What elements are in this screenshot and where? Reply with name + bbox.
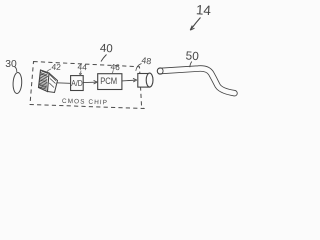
- wire mic to A/D: [57, 82, 71, 85]
- svg-text:50: 50: [185, 48, 200, 63]
- svg-text:48: 48: [141, 55, 152, 66]
- ear oval 30: [13, 72, 23, 93]
- tube 50 outline: [160, 68, 235, 93]
- svg-text:44: 44: [77, 62, 87, 73]
- A/D converter box: [71, 76, 84, 91]
- leader 30: [15, 67, 17, 73]
- svg-text:30: 30: [5, 59, 17, 70]
- svg-text:46: 46: [110, 62, 120, 73]
- svg-text:40: 40: [100, 43, 113, 56]
- leader 50: [190, 62, 192, 68]
- leader 46: [112, 70, 113, 73]
- svg-text:14: 14: [195, 2, 212, 18]
- PCM box: [98, 74, 122, 90]
- arrow 14 leader: [191, 18, 200, 30]
- leader 48: [136, 64, 142, 71]
- svg-text:PCM: PCM: [100, 76, 117, 86]
- leader 40: [101, 55, 107, 62]
- svg-text:A/D: A/D: [71, 79, 82, 88]
- leader 42: [47, 69, 51, 72]
- tube left end cap: [157, 68, 163, 74]
- dashed chip box 40: [30, 62, 144, 109]
- svg-text:42: 42: [51, 61, 61, 72]
- microphone 42 hatched panel: [39, 70, 58, 93]
- wire A/D to PCM: [83, 81, 95, 83]
- leader 44 arrow: [79, 71, 82, 76]
- connector 48: [138, 74, 150, 88]
- wire PCM to connector 48: [122, 79, 135, 82]
